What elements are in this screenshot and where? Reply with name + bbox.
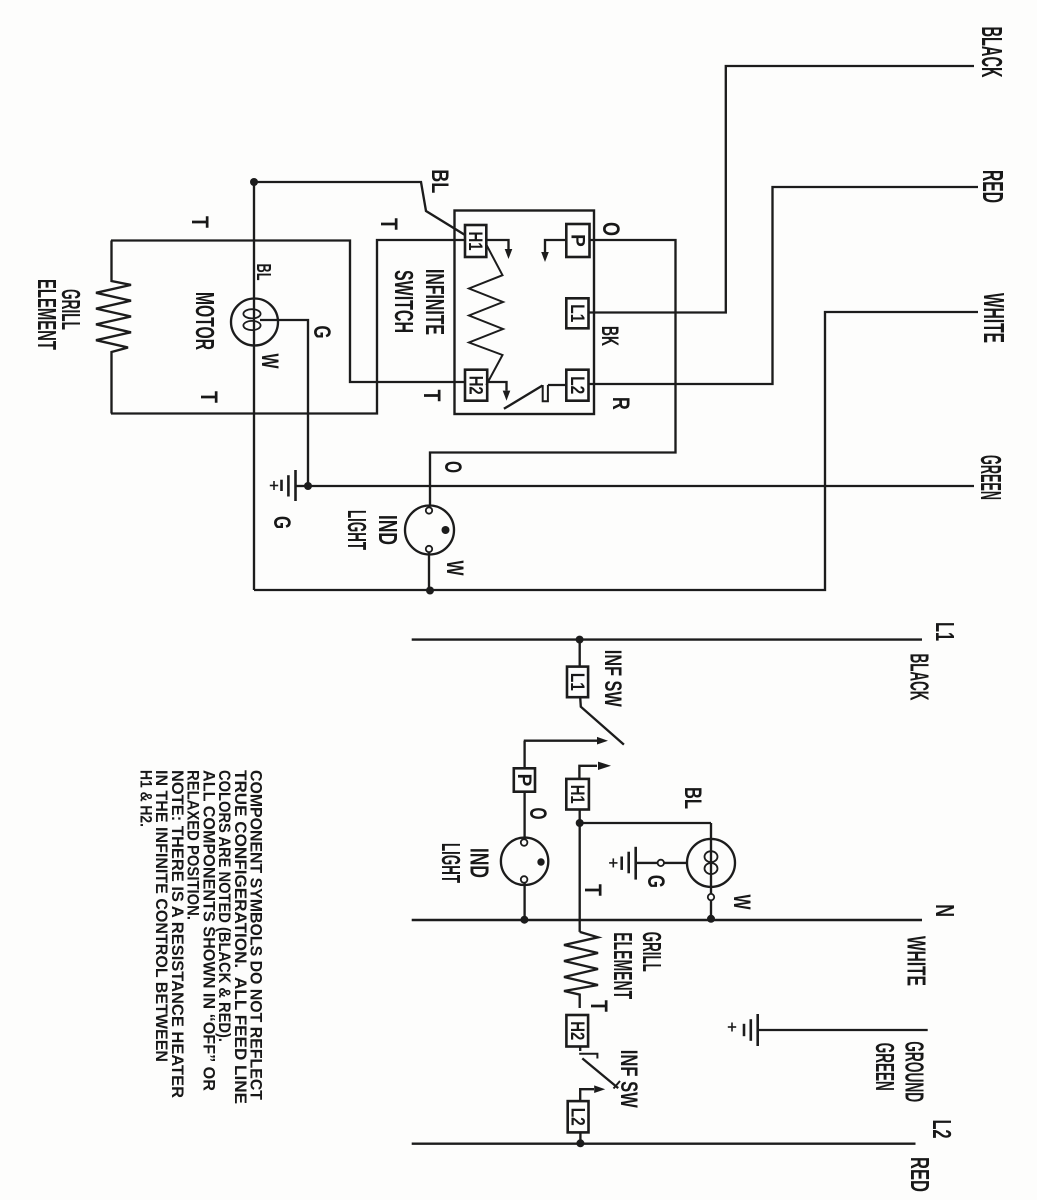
- lamp terminal (right): [426, 546, 432, 552]
- terminal H1 (ladder): [566, 779, 589, 810]
- lamp internal dot: [442, 526, 450, 534]
- indicator light DS1 circle: [405, 506, 454, 555]
- svg-text:T: T: [579, 884, 606, 896]
- motor M1 windings: [243, 309, 260, 318]
- svg-text:INFINITE: INFINITE: [420, 269, 450, 335]
- svg-text:T: T: [375, 218, 402, 230]
- svg-text:L1: L1: [566, 304, 587, 322]
- svg-text:BLACK: BLACK: [905, 654, 935, 701]
- svg-text:WHITE: WHITE: [977, 293, 1009, 343]
- H1 wiper pointer arrow: [486, 240, 508, 249]
- svg-text:W: W: [256, 354, 283, 369]
- wire BL: from junction to switch terminal H1: [254, 182, 465, 235]
- terminal H1: [465, 225, 486, 257]
- svg-text:ELEMENT: ELEMENT: [608, 932, 638, 999]
- svg-text:INF SW: INF SW: [599, 650, 626, 707]
- terminal H2 (ladder): [566, 1015, 588, 1047]
- svg-text:H1: H1: [464, 232, 485, 251]
- wire: BLACK feed line from top edge to switch terminal L1: [589, 66, 975, 313]
- svg-text:O: O: [524, 808, 551, 820]
- wire: H2 to grill element (stair): [111, 241, 465, 383]
- svg-text:G: G: [642, 875, 669, 888]
- wire: bottom rail (motor line) along landscape y=783: [253, 182, 255, 590]
- switch blade (ladder, L1 side): [580, 697, 624, 744]
- rail L2 (red): [412, 1142, 916, 1144]
- svg-text:T: T: [195, 391, 222, 403]
- svg-text:BL: BL: [252, 264, 274, 281]
- terminal L1 (inf switch, ladder): [567, 667, 588, 698]
- svg-text:RED: RED: [905, 1157, 935, 1192]
- svg-text:P: P: [513, 774, 534, 787]
- svg-text:T: T: [186, 216, 213, 228]
- wire: P terminal to indicator light: [430, 240, 676, 506]
- node: H1 branch junction dot: [576, 819, 584, 827]
- ground symbol (green lead): [756, 1014, 759, 1046]
- svg-text:BLACK: BLACK: [975, 27, 1007, 78]
- switch blade (ladder, L2 side): [582, 1058, 618, 1088]
- node: lamp-white junction dot: [426, 587, 434, 595]
- H2 wiper pointer arrow: [487, 382, 506, 391]
- svg-text:BL: BL: [679, 787, 706, 809]
- svg-text:ELEMENT: ELEMENT: [32, 279, 62, 350]
- svg-text:L2: L2: [566, 376, 587, 394]
- terminal P: [566, 224, 589, 257]
- motor M2 windings: [705, 851, 718, 862]
- wire: lamp to white rail: [428, 553, 430, 591]
- svg-text:INF SW: INF SW: [615, 1050, 642, 1108]
- lamp terminal left (ladder): [521, 839, 528, 846]
- rail N (white): [412, 919, 922, 921]
- svg-text:T: T: [418, 390, 445, 402]
- node: L1 rail junction dot: [576, 636, 584, 644]
- wire: GREEN feed line from top edge to ground junction: [308, 485, 974, 487]
- svg-text:O: O: [597, 222, 624, 236]
- wire: P to lamp (ladder): [523, 792, 525, 837]
- svg-text:P: P: [566, 234, 587, 247]
- svg-text:L1: L1: [930, 622, 960, 641]
- svg-text:H2: H2: [566, 1021, 587, 1040]
- ground symbol (ladder motor): [634, 847, 637, 880]
- node: ground junction dot: [304, 482, 312, 490]
- arrow: P branch riser with up arrow: [524, 740, 597, 742]
- svg-text:GREEN: GREEN: [870, 1043, 900, 1091]
- resistor: grill element zigzag (ladder): [564, 932, 598, 1008]
- wire: riser corner to motor: [710, 823, 712, 920]
- svg-text:IND: IND: [373, 515, 403, 545]
- motor M1 circle: [231, 299, 278, 346]
- svg-text:GRILL: GRILL: [637, 932, 667, 972]
- lamp terminal (left): [426, 507, 432, 513]
- svg-text:GREEN: GREEN: [974, 455, 1006, 500]
- ground symbol (earth) upper schematic: [296, 485, 309, 487]
- svg-text:W: W: [441, 561, 468, 576]
- terminal L2: [566, 370, 588, 401]
- infinite switch box outline: [455, 211, 595, 415]
- svg-text:WHITE: WHITE: [902, 936, 932, 986]
- motor M2 circle (ladder): [687, 839, 735, 887]
- arrow: L2 pointer up arrow (ladder): [580, 1089, 594, 1101]
- wire: blade area to P terminal (ladder): [523, 741, 525, 769]
- arrow: H1 pointer up arrow: [579, 766, 597, 779]
- resistor: internal resistance heater H1-H2: [469, 244, 503, 385]
- svg-text:L2: L2: [567, 1108, 588, 1126]
- svg-text:O: O: [439, 461, 466, 473]
- svg-text:LIGHT: LIGHT: [436, 843, 466, 883]
- terminal L2 (ladder): [568, 1101, 589, 1132]
- svg-text:L2: L2: [927, 1120, 957, 1139]
- H2 stationary contact (ladder): [579, 1047, 581, 1052]
- wire: WHITE feed line from top edge to bottom rail: [254, 312, 978, 590]
- svg-text:G: G: [268, 516, 295, 529]
- node: lamp-N junction dot: [520, 916, 528, 924]
- svg-text:H1: H1: [566, 785, 587, 804]
- terminal L1: [566, 298, 588, 328]
- rail L1 (black): [412, 638, 922, 640]
- terminal P (ladder): [514, 768, 535, 791]
- node: L2 rail junction dot: [576, 1139, 584, 1147]
- svg-text:H2: H2: [465, 376, 486, 395]
- svg-text:IND: IND: [465, 848, 495, 878]
- svg-text:SWITCH: SWITCH: [389, 270, 419, 333]
- lamp terminal right (ladder): [521, 876, 528, 883]
- svg-text:W: W: [728, 895, 755, 910]
- svg-text:L1: L1: [566, 673, 587, 691]
- svg-text:LIGHT: LIGHT: [342, 510, 372, 550]
- svg-text:MOTOR: MOTOR: [190, 292, 220, 350]
- svg-text:BK: BK: [596, 326, 623, 346]
- L2 stationary contact: [548, 384, 566, 386]
- wire: motor ground drop: [636, 862, 687, 864]
- svg-text:R: R: [607, 397, 634, 410]
- node: BL junction dot: [250, 178, 258, 186]
- resistor: GRILL ELEMENT heating element zigzag: [96, 241, 131, 414]
- motor terminal circle (W side): [708, 894, 714, 900]
- wire: L2 terminal to L2 rail: [579, 1132, 581, 1143]
- svg-text:N: N: [930, 904, 960, 917]
- wire: motor G lead to ground junction: [260, 320, 308, 486]
- wire: RED feed line from top edge to switch terminal L2: [589, 187, 979, 384]
- svg-text:GROUND: GROUND: [900, 1041, 930, 1102]
- blade tip contact tick: [614, 1081, 621, 1089]
- svg-text:H1 & H2.: H1 & H2.: [137, 770, 155, 827]
- P wiper pointer arrow: [545, 240, 566, 252]
- terminal H2: [465, 370, 487, 401]
- lamp internal dot (ladder): [537, 858, 544, 865]
- switch blade (moving contact): [504, 386, 543, 409]
- indicator light DS2 circle (ladder): [501, 838, 548, 885]
- svg-text:T: T: [585, 1000, 612, 1012]
- wire: L1 rail to INF SW terminal: [579, 640, 581, 667]
- node: motor-N junction dot: [707, 915, 715, 923]
- wire: H1 to grill element (stair): [111, 240, 465, 414]
- wire: lamp to N rail (ladder): [523, 883, 525, 920]
- wire: riser from H1 junction to motor branch: [580, 822, 711, 824]
- svg-text:BL: BL: [426, 169, 453, 193]
- wire: H1 to grill element (ladder rung): [579, 810, 581, 932]
- motor ground terminal circle: [658, 860, 664, 866]
- svg-text:G: G: [308, 326, 335, 339]
- svg-text:RED: RED: [976, 170, 1008, 203]
- wire: ground green stub: [758, 1029, 928, 1031]
